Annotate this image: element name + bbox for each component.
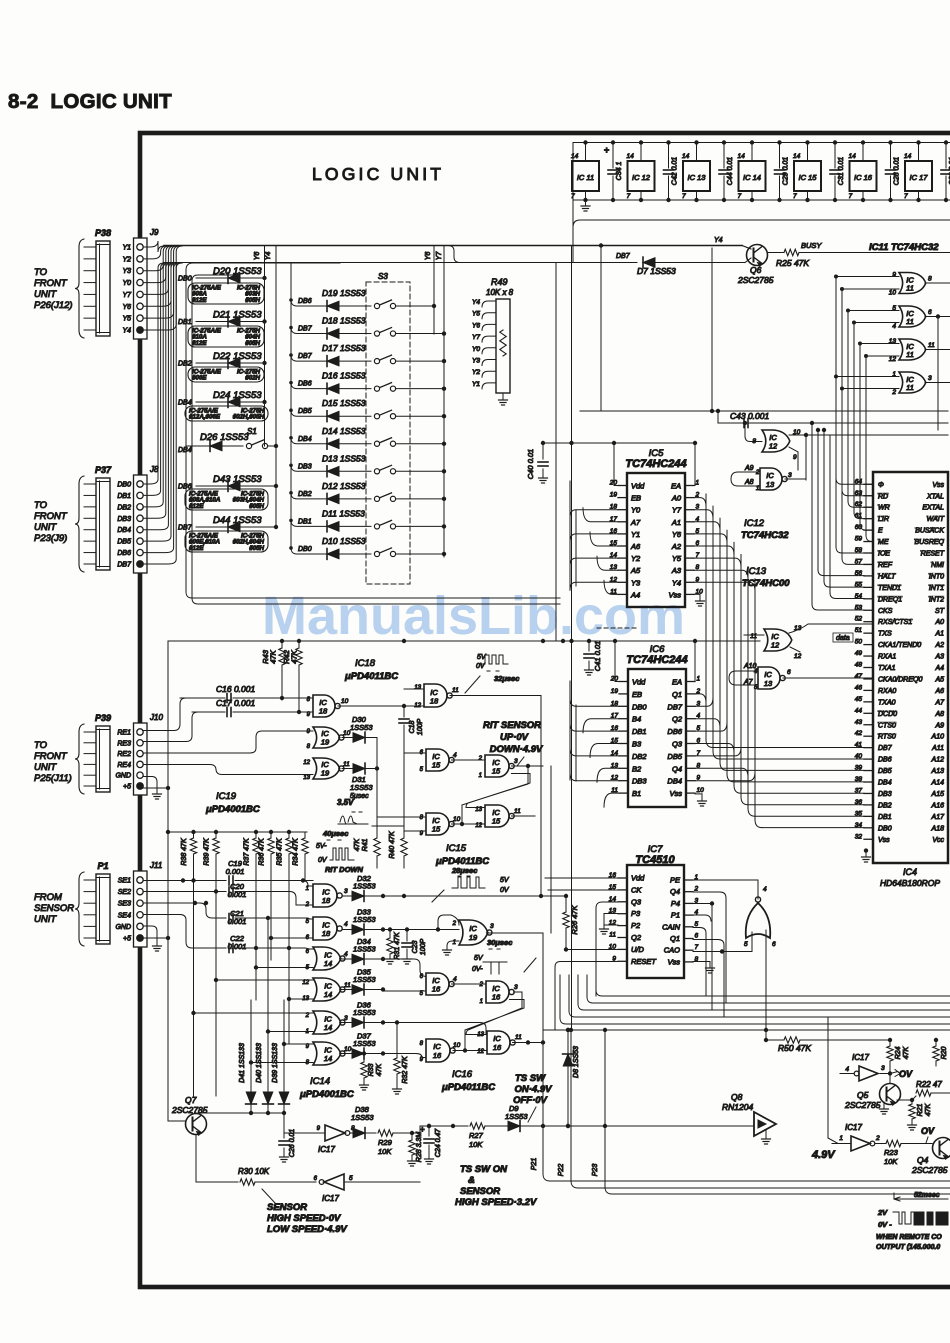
- label P39 destination: [34, 740, 72, 784]
- diode D22: [178, 351, 267, 368]
- gate IC19 unit4 vertical: [693, 880, 776, 1040]
- gate IC15 unit1: [404, 749, 485, 773]
- svg-text:12: 12: [769, 442, 778, 451]
- svg-text:7: 7: [904, 193, 908, 200]
- diode D14 switch row: [289, 426, 446, 449]
- svg-text:IC 12: IC 12: [632, 173, 651, 182]
- wire 49v: [828, 1017, 849, 1144]
- wire ic16 cross: [465, 992, 524, 1051]
- svg-text:C24 0.47: C24 0.47: [435, 1128, 442, 1158]
- svg-text:Y6: Y6: [254, 252, 261, 261]
- wire q7 emitter: [195, 1113, 197, 1182]
- svg-text:IC 17: IC 17: [910, 173, 929, 182]
- wire RE1 route: [143, 698, 186, 731]
- svg-text:DB4: DB4: [178, 447, 192, 454]
- svg-text:CKA0/DREQ0: CKA0/DREQ0: [878, 676, 922, 683]
- svg-text:RE2: RE2: [117, 751, 131, 758]
- svg-text:0.001: 0.001: [228, 942, 247, 951]
- diode D13 switch row: [289, 453, 446, 476]
- label sensor speeds: [267, 1202, 347, 1235]
- diode D12 switch row: [289, 481, 446, 504]
- wire IC5 right hooks: [694, 498, 755, 592]
- svg-text:1: 1: [306, 886, 309, 892]
- svg-text:11: 11: [609, 932, 616, 939]
- svg-text:Y6: Y6: [425, 252, 432, 261]
- svg-text:ME: ME: [878, 539, 889, 546]
- svg-text:1SS53: 1SS53: [353, 1039, 376, 1048]
- svg-text:Y3: Y3: [631, 578, 641, 587]
- capacitor C43: [716, 409, 948, 442]
- svg-text:Y4: Y4: [122, 328, 131, 335]
- svg-text:IC14: IC14: [310, 1076, 330, 1087]
- resistor R30: [196, 1167, 316, 1204]
- svg-text:J10: J10: [149, 713, 163, 722]
- svg-text:Y1: Y1: [122, 245, 131, 252]
- info box D21: [188, 326, 264, 347]
- svg-text:4: 4: [453, 752, 457, 759]
- label ts sw on sensor: [455, 1164, 537, 1208]
- svg-text:Vss: Vss: [878, 837, 890, 844]
- svg-text:Y4: Y4: [472, 299, 480, 306]
- svg-text:53: 53: [855, 604, 863, 611]
- svg-text:TO: TO: [34, 740, 48, 751]
- svg-text:IC: IC: [764, 670, 772, 679]
- wire RE2 route: [143, 731, 313, 753]
- svg-text:DCD0: DCD0: [878, 711, 897, 718]
- svg-text:3: 3: [514, 758, 518, 765]
- resistor R25: [767, 241, 950, 268]
- svg-text:μPD4001BC: μPD4001BC: [299, 1089, 354, 1100]
- svg-text:14: 14: [904, 153, 912, 160]
- svg-text:R30 10K: R30 10K: [238, 1167, 270, 1176]
- svg-text:Y6: Y6: [472, 322, 480, 329]
- info box D43: [185, 489, 268, 510]
- label TC4510: [635, 854, 675, 866]
- svg-text:RXA0: RXA0: [878, 688, 896, 695]
- svg-text:Q3: Q3: [631, 897, 642, 906]
- wire A9 A8 hooks: [731, 472, 738, 486]
- capacitor C28: [886, 140, 901, 202]
- resistor R33: [360, 1051, 384, 1090]
- svg-text:12: 12: [609, 920, 617, 927]
- gate IC19 unit3: [443, 920, 544, 955]
- svg-text:47K: 47K: [354, 838, 361, 851]
- svg-text:15: 15: [492, 767, 501, 776]
- svg-text:DB3: DB3: [117, 516, 131, 523]
- svg-text:5: 5: [744, 941, 748, 948]
- svg-text:FRONT: FRONT: [34, 278, 68, 289]
- gate IC11 unit 4: [891, 371, 950, 396]
- svg-text:R22 47: R22 47: [916, 1080, 942, 1089]
- svg-text:SENSOR: SENSOR: [267, 1202, 307, 1213]
- svg-text:13: 13: [303, 775, 310, 781]
- svg-text:FRONT: FRONT: [34, 751, 68, 762]
- wire Y6 right vertical: [433, 246, 435, 335]
- svg-text:DB2: DB2: [178, 361, 192, 368]
- wire J11 plus5: [143, 937, 168, 939]
- wire ic15 cross: [462, 766, 530, 824]
- wire inner top rail: [573, 220, 950, 227]
- gate IC13 unit1: [738, 465, 806, 492]
- diode D16 switch row: [289, 371, 446, 394]
- IC U7 TC4510: [609, 844, 699, 978]
- svg-text:47K: 47K: [269, 649, 278, 663]
- svg-text:DB6: DB6: [117, 550, 131, 557]
- gate IC12 unit2: [744, 624, 873, 660]
- svg-text:WR: WR: [878, 505, 890, 512]
- svg-text:11: 11: [514, 808, 521, 815]
- svg-text:+5: +5: [123, 784, 131, 791]
- gate IC18 low1: [305, 884, 348, 908]
- svg-text:2: 2: [452, 921, 457, 927]
- svg-text:S1: S1: [247, 427, 257, 436]
- svg-text:0V -: 0V -: [878, 1220, 892, 1229]
- svg-text:Vdd: Vdd: [631, 874, 645, 883]
- svg-text:13: 13: [766, 480, 775, 489]
- svg-text:PE: PE: [670, 876, 681, 885]
- svg-text:1SS53: 1SS53: [353, 915, 376, 924]
- svg-text:5: 5: [695, 921, 699, 928]
- svg-text:Y0: Y0: [631, 506, 641, 515]
- svg-text:1: 1: [480, 999, 483, 1005]
- svg-text:INT2: INT2: [929, 596, 944, 603]
- svg-text:Y3: Y3: [472, 358, 480, 365]
- svg-text:10K: 10K: [378, 1147, 392, 1156]
- svg-text:19: 19: [321, 738, 330, 747]
- svg-text:A15: A15: [931, 791, 945, 798]
- svg-text:5V: 5V: [474, 955, 484, 962]
- svg-text:9: 9: [793, 454, 797, 461]
- wire data bus verticals: [706, 494, 755, 700]
- svg-text:Y7: Y7: [436, 251, 443, 261]
- svg-text:CAO: CAO: [664, 946, 680, 955]
- svg-text:DB7: DB7: [667, 702, 682, 711]
- gate IC16 unit1: [420, 973, 486, 997]
- P1 brace: [75, 872, 84, 946]
- svg-text:TO: TO: [34, 500, 48, 511]
- gate IC12 unit1: [752, 429, 808, 480]
- svg-text:1SS53: 1SS53: [351, 1113, 374, 1122]
- IC IC12 bypass block: [627, 140, 655, 202]
- svg-text:P2: P2: [631, 921, 641, 930]
- svg-text:11: 11: [515, 1034, 522, 1041]
- svg-text:4: 4: [453, 976, 457, 983]
- svg-text:52msec: 52msec: [914, 1192, 940, 1199]
- waveform remote: [876, 1192, 948, 1251]
- svg-text:R33: R33: [368, 1063, 375, 1076]
- svg-text:D13 1SS53: D13 1SS53: [322, 453, 366, 463]
- svg-text:DB2: DB2: [632, 752, 647, 761]
- svg-text:56: 56: [855, 570, 863, 577]
- wire sensor verticals: [194, 854, 292, 1096]
- capacitor C18: [399, 706, 424, 838]
- svg-text:Vss: Vss: [667, 957, 680, 966]
- svg-text:4: 4: [892, 323, 896, 330]
- svg-text:9: 9: [420, 831, 424, 837]
- svg-text:4.9V: 4.9V: [811, 1149, 836, 1161]
- svg-text:7: 7: [627, 193, 631, 200]
- svg-text:R39 47K: R39 47K: [204, 838, 211, 866]
- svg-text:P21: P21: [531, 1158, 538, 1171]
- diode D10 switch row: [289, 536, 446, 559]
- diode D31: [350, 763, 379, 800]
- svg-text:TXS: TXS: [878, 631, 892, 638]
- svg-text:14: 14: [324, 1023, 332, 1032]
- svg-text:9: 9: [306, 1044, 310, 1050]
- svg-text:A6: A6: [934, 688, 944, 695]
- svg-text:R49: R49: [491, 277, 508, 287]
- svg-text:18: 18: [430, 697, 439, 706]
- svg-text:D14 1SS53: D14 1SS53: [322, 426, 366, 436]
- label P37 destination: [34, 500, 68, 544]
- svg-text:P1: P1: [97, 861, 108, 871]
- svg-text:D21 1SS53: D21 1SS53: [213, 310, 262, 321]
- svg-text:D8 1SS53: D8 1SS53: [573, 1046, 580, 1078]
- svg-text:Y0: Y0: [472, 346, 480, 353]
- diode D17 switch row: [289, 343, 446, 366]
- svg-text:0V: 0V: [476, 663, 486, 670]
- resistor R21: [908, 1100, 933, 1130]
- svg-text:LIR: LIR: [878, 516, 889, 523]
- gate IC19 unit2: [303, 758, 352, 781]
- wire q6 collector: [742, 246, 751, 250]
- wire bottom supply bus: [573, 199, 950, 201]
- svg-text:D41 1SS133: D41 1SS133: [239, 1043, 246, 1083]
- svg-text:R41: R41: [362, 838, 369, 851]
- watermark: [262, 586, 685, 646]
- svg-text:CKS: CKS: [878, 608, 893, 615]
- svg-text:DB1: DB1: [178, 319, 192, 326]
- diode D44: [178, 515, 278, 532]
- capacitor C42: [664, 140, 679, 202]
- svg-text:D19 1SS53: D19 1SS53: [322, 288, 366, 298]
- svg-text:A3: A3: [934, 654, 944, 661]
- svg-text:48: 48: [855, 662, 863, 669]
- svg-text:15: 15: [492, 817, 501, 826]
- svg-text:EB: EB: [631, 494, 641, 503]
- gate IC17 unit a: [284, 1125, 355, 1154]
- svg-text:18: 18: [319, 707, 328, 716]
- svg-text:HALT: HALT: [878, 573, 896, 580]
- svg-text:Y6: Y6: [672, 530, 682, 539]
- svg-text:RIT DOWN: RIT DOWN: [325, 865, 363, 874]
- svg-text:D39 1SS133: D39 1SS133: [272, 1043, 279, 1083]
- svg-text:51: 51: [855, 627, 863, 634]
- P39 pin stubs: [84, 732, 96, 786]
- svg-text:50: 50: [855, 639, 863, 646]
- wire rail 832: [168, 830, 307, 834]
- diode D21: [178, 310, 267, 327]
- svg-text:Q1: Q1: [670, 934, 680, 943]
- svg-text:A11: A11: [931, 745, 944, 752]
- svg-text:B3: B3: [632, 740, 642, 749]
- svg-text:9: 9: [307, 729, 311, 735]
- svg-text:P23(J9): P23(J9): [34, 533, 67, 544]
- gate IC13 unit2: [729, 663, 873, 691]
- svg-text:14: 14: [571, 153, 579, 160]
- svg-text:RIT SENSOR: RIT SENSOR: [483, 720, 541, 731]
- svg-text:A13: A13: [931, 768, 945, 775]
- svg-text:32μsec: 32μsec: [494, 674, 520, 683]
- resistor R23: [884, 1140, 932, 1166]
- resistor R41: [354, 769, 380, 869]
- svg-text:RE3: RE3: [117, 740, 131, 747]
- svg-text:P1: P1: [671, 911, 680, 920]
- svg-text:GND: GND: [115, 924, 131, 931]
- svg-text:A7: A7: [934, 699, 945, 706]
- J8 pins: [117, 481, 143, 569]
- svg-text:5: 5: [349, 1175, 353, 1182]
- svg-text:Y5: Y5: [122, 316, 131, 323]
- gate IC15 unit2: [478, 755, 543, 779]
- svg-text:DB6: DB6: [878, 757, 892, 764]
- svg-text:18: 18: [322, 929, 331, 938]
- wire Y7 right vertical: [443, 246, 445, 558]
- svg-text:16: 16: [493, 1043, 502, 1052]
- resistor R22: [912, 1080, 950, 1100]
- diode D39: [272, 1000, 289, 1115]
- resistor R42: [282, 641, 302, 712]
- svg-text:7: 7: [571, 193, 575, 200]
- svg-text:A6: A6: [630, 542, 641, 551]
- svg-text:DB2: DB2: [117, 504, 131, 511]
- svg-text:C31 0.01: C31 0.01: [838, 157, 845, 186]
- svg-text:HD64B180ROP: HD64B180ROP: [880, 878, 940, 888]
- svg-text:18: 18: [322, 896, 331, 905]
- svg-text:40: 40: [855, 753, 863, 760]
- svg-text:DB3: DB3: [632, 777, 647, 786]
- svg-text:#05H: #05H: [249, 545, 264, 552]
- svg-text:A3: A3: [671, 566, 682, 575]
- diode D8: [563, 1028, 580, 1128]
- gate IC15 unit3: [377, 813, 485, 837]
- diode D15 switch row: [289, 398, 446, 421]
- gate IC14 low4: [302, 978, 351, 1002]
- diode D33: [342, 908, 385, 935]
- svg-text:DB6: DB6: [667, 727, 682, 736]
- svg-text:15: 15: [432, 825, 441, 834]
- wire vert 576: [575, 510, 577, 781]
- svg-text:DB7: DB7: [878, 745, 893, 752]
- svg-text:C43 0.001: C43 0.001: [730, 411, 769, 421]
- svg-text:RN1204: RN1204: [722, 1102, 753, 1112]
- svg-text:5V: 5V: [477, 654, 487, 661]
- capacitor C20: [143, 882, 313, 905]
- svg-text:TXA1: TXA1: [878, 665, 896, 672]
- info box D20: [188, 283, 264, 304]
- svg-text:11: 11: [928, 342, 935, 349]
- wire RE4 route: [143, 765, 313, 775]
- svg-text:R31 47K: R31 47K: [394, 932, 401, 960]
- svg-text:DB7: DB7: [178, 525, 193, 532]
- svg-text:IC11 TC74HC32: IC11 TC74HC32: [869, 242, 939, 253]
- svg-text:C40 0.01: C40 0.01: [526, 449, 535, 479]
- svg-text:#12A,#06E: #12A,#06E: [189, 414, 221, 421]
- svg-text:WAIT: WAIT: [927, 516, 945, 523]
- capacitor C22: [143, 915, 313, 953]
- svg-text:A4: A4: [630, 590, 640, 599]
- svg-text:#05H: #05H: [249, 503, 264, 510]
- svg-text:58: 58: [855, 547, 863, 554]
- wire vdd rail ic6: [613, 639, 697, 682]
- svg-text:P38: P38: [95, 228, 111, 238]
- wire y loop: [448, 246, 460, 263]
- svg-text:13: 13: [302, 996, 309, 1002]
- svg-text:8: 8: [420, 815, 424, 821]
- svg-text:IC 15: IC 15: [799, 173, 818, 182]
- gate IC14 low3: [306, 947, 348, 971]
- svg-text:Y7: Y7: [472, 334, 480, 341]
- svg-text:19: 19: [610, 492, 618, 499]
- gate IC16 unit3: [420, 1039, 487, 1063]
- svg-text:9: 9: [307, 712, 311, 718]
- capacitor C19: [143, 859, 313, 885]
- svg-text:4: 4: [344, 951, 348, 958]
- svg-text:1: 1: [306, 1029, 309, 1035]
- svg-text:Q2: Q2: [672, 715, 683, 724]
- svg-text:IC: IC: [493, 1034, 501, 1043]
- svg-text:J11: J11: [149, 861, 162, 870]
- svg-text:61: 61: [855, 513, 863, 520]
- svg-text:#02H: #02H: [245, 375, 260, 382]
- svg-text:38: 38: [855, 776, 863, 783]
- svg-text:5V: 5V: [500, 877, 510, 884]
- label P38 destination: [34, 267, 73, 311]
- svg-text:57: 57: [855, 558, 863, 565]
- wire ic7 left pins: [545, 878, 618, 1030]
- svg-text:3: 3: [344, 1015, 348, 1022]
- svg-text:HIGH SPEED·3.2V: HIGH SPEED·3.2V: [455, 1197, 537, 1208]
- svg-text:#12E: #12E: [189, 503, 204, 510]
- svg-text:RXA1: RXA1: [878, 654, 896, 661]
- svg-text:P39: P39: [95, 713, 111, 723]
- gate IC18 low2: [306, 917, 348, 941]
- svg-text:2: 2: [755, 470, 760, 476]
- outer border frame: [140, 133, 950, 1287]
- svg-text:LOW SPEED·4.9V: LOW SPEED·4.9V: [267, 1224, 347, 1235]
- svg-text:DB7: DB7: [117, 562, 132, 569]
- svg-text:16: 16: [492, 993, 501, 1002]
- svg-text:14: 14: [849, 153, 857, 160]
- svg-text:TEND1: TEND1: [878, 585, 901, 592]
- svg-text:3: 3: [514, 984, 518, 991]
- svg-text:Q4: Q4: [917, 1155, 929, 1165]
- svg-text:3.5V: 3.5V: [337, 798, 354, 807]
- gate IC19 unit1: [307, 727, 352, 750]
- svg-text:DB4: DB4: [298, 436, 312, 443]
- ground IC6 vss: [695, 794, 707, 806]
- wire v571: [569, 246, 573, 1031]
- svg-text:EA: EA: [672, 678, 682, 687]
- svg-text:Y5: Y5: [472, 311, 480, 318]
- svg-text:1SS53: 1SS53: [353, 1008, 376, 1017]
- wire IC5 left hooks: [570, 508, 618, 595]
- svg-text:C29 0.01: C29 0.01: [783, 157, 790, 186]
- svg-text:BUSY: BUSY: [801, 241, 822, 250]
- svg-text:11: 11: [906, 317, 914, 326]
- svg-text:1SS53: 1SS53: [353, 882, 376, 891]
- svg-text:#12E: #12E: [192, 340, 207, 347]
- wire d34 d35 join: [383, 959, 487, 1058]
- svg-text:#02H,#05H: #02H,#05H: [233, 414, 265, 421]
- resistor R29: [378, 1130, 420, 1156]
- ground IC5 vss: [694, 594, 705, 606]
- svg-text:C23: C23: [412, 940, 419, 953]
- label IC17 c: [852, 1053, 869, 1062]
- svg-text:IC17: IC17: [845, 1123, 862, 1132]
- svg-text:IC17: IC17: [322, 1194, 339, 1203]
- svg-text:A17: A17: [931, 814, 946, 821]
